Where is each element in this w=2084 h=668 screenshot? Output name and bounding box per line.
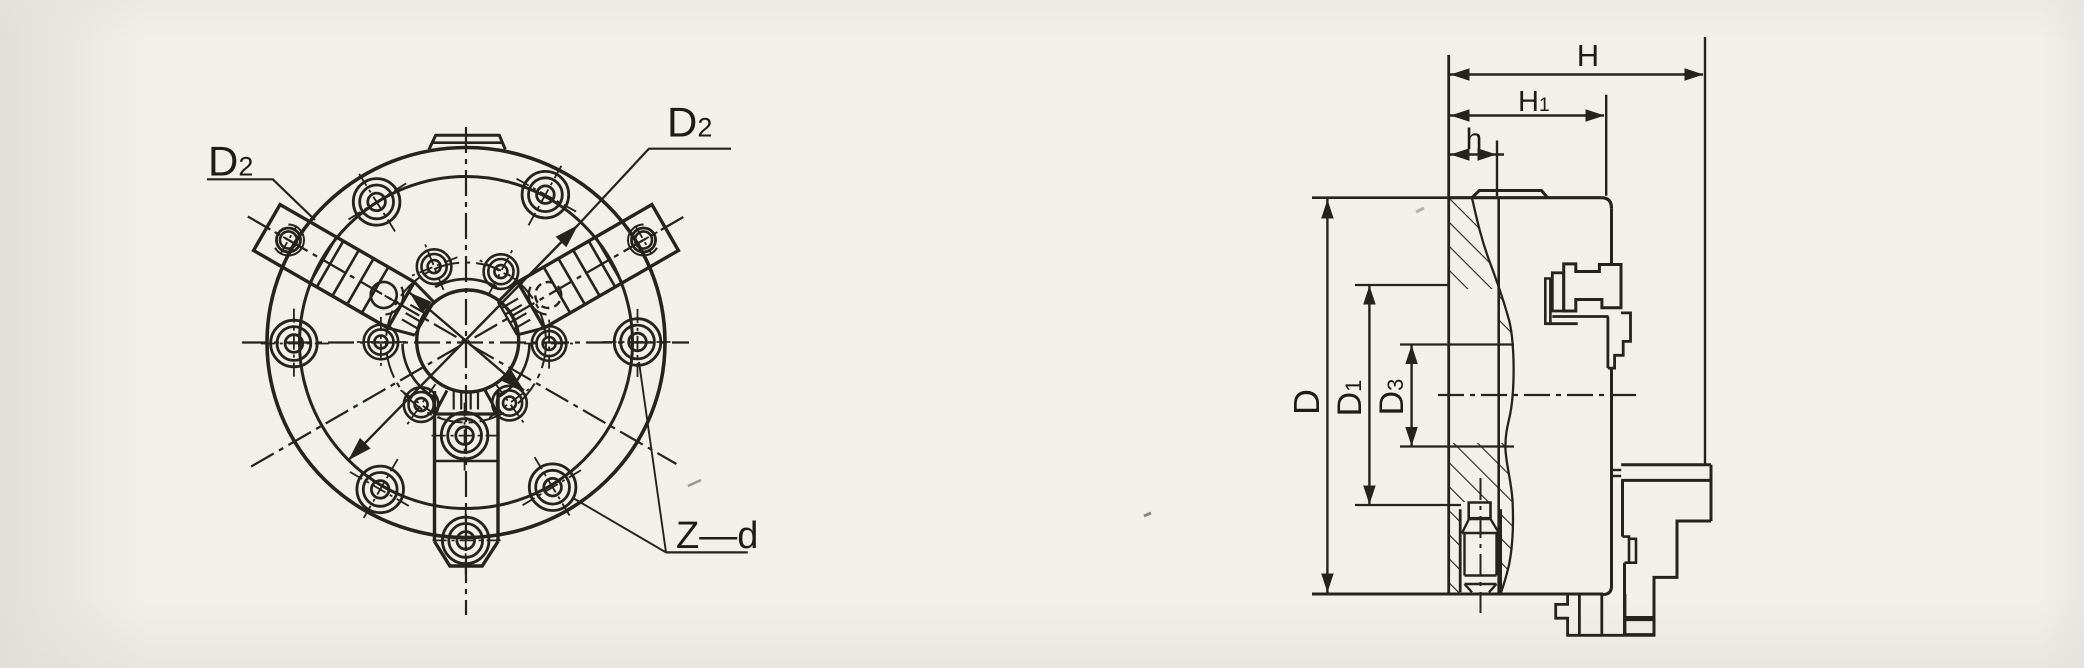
rear block divider 3 [1624, 594, 1627, 635]
bottom jaw plate top [1621, 463, 1711, 466]
leader Z-d to lower bolt [573, 498, 666, 552]
leader D2 top-right [578, 149, 731, 225]
top jaw thin plate [1545, 279, 1550, 324]
body top edge [1449, 196, 1602, 199]
dim D1 line [1368, 285, 1370, 505]
bottom jaw key tooth [1623, 537, 1637, 563]
inner screw 235 deg [404, 387, 439, 422]
dim H1 extension right [1605, 95, 1607, 196]
svg-text:D2: D2 [667, 99, 712, 146]
section break wavy line [1472, 198, 1514, 594]
body front face lower [1610, 368, 1613, 586]
bottom jaw T-nut line [1625, 618, 1654, 621]
inner screw 112 deg [417, 249, 452, 284]
bottom jaw bolt at tip [442, 517, 489, 564]
leader Z-d to right bolt [639, 362, 666, 552]
hatch region bottom [1449, 443, 1513, 594]
dim D1 top extension [1355, 284, 1449, 286]
inner screw 180 deg [364, 325, 399, 360]
bottom jaw bolt near face [441, 412, 488, 459]
top jaw base line [1552, 315, 1608, 318]
jaw axis centerline 30-210 deg [251, 217, 684, 467]
outer bolt 301 deg [529, 464, 576, 511]
screw chamfer [1462, 519, 1499, 533]
inner screw 0 deg [532, 326, 567, 361]
outer bolt 61 deg [522, 171, 569, 218]
hatch region top [1449, 198, 1513, 338]
paper specks [1144, 513, 1151, 516]
rear block divider 1 [1578, 594, 1581, 635]
flange screw counterbore [1459, 509, 1462, 592]
outer bolt 240 deg [357, 466, 404, 513]
pillar right bar [1608, 313, 1631, 368]
upper-left jaw [254, 205, 438, 342]
svg-text:H1: H1 [1518, 86, 1550, 118]
flange left edge [1447, 55, 1450, 594]
top key boss [429, 135, 505, 149]
svg-text:H: H [1577, 38, 1599, 73]
bottom jaw left edge upper [1621, 480, 1624, 536]
outer bolt 180 deg [271, 320, 318, 367]
dim D3 top extension [1400, 343, 1514, 345]
dim D3 bottom extension [1400, 445, 1514, 447]
dim D3 line [1410, 345, 1412, 447]
dim h extension right [1496, 141, 1498, 197]
svg-text:D: D [1286, 389, 1327, 415]
horizontal centerline [242, 341, 689, 343]
dim h line [1450, 153, 1504, 155]
svg-text:D2: D2 [208, 137, 253, 184]
top key boss midline [433, 141, 502, 144]
D2 inner clamp dia arrows 135-315 [410, 293, 525, 391]
vertical centerline [465, 127, 467, 615]
section top boss [1472, 191, 1548, 198]
svg-text:D1: D1 [1331, 380, 1369, 417]
leader D2 top-left [207, 179, 315, 220]
dim H extension right [1704, 37, 1706, 464]
body+flange bottom edge, D extension [1312, 593, 1603, 596]
top jaw base line 2 [1545, 322, 1577, 325]
scroll arcs around bore [435, 279, 497, 287]
bottom jaw [435, 391, 499, 567]
screw centerline [1480, 478, 1482, 613]
chuck face inner circle [300, 177, 633, 509]
body bottom-right corner [1603, 586, 1612, 595]
jaw pillar left edge [1607, 317, 1610, 369]
dim D line [1326, 199, 1328, 593]
section centerline [1438, 394, 1642, 396]
dim D top extension [1312, 196, 1449, 199]
underline Z-d [666, 551, 748, 553]
rear mount block [1556, 594, 1654, 635]
dim H line [1450, 73, 1703, 75]
outer bolt 122 deg [353, 179, 400, 226]
outer bolt 0 deg [614, 319, 661, 366]
inner screw 62 deg [484, 254, 519, 289]
screw bottom lines [1465, 574, 1497, 576]
inner bolt circle dash-dot [386, 263, 546, 423]
body top-right rounded corner [1601, 198, 1611, 209]
center bore circle [417, 290, 519, 392]
chuck body outer circle [267, 148, 665, 538]
D2 outer clamp dia double arrow 45-225 [348, 225, 578, 460]
bottom jaw tab [1613, 469, 1621, 471]
svg-text:Z—d: Z—d [676, 515, 758, 557]
dim H1 line [1450, 114, 1604, 116]
bottom jaw steps [1625, 521, 1712, 635]
pillar lower stem [1610, 368, 1612, 464]
upper-right jaw [494, 205, 678, 342]
inner screw 306 deg [492, 386, 527, 421]
top jaw insert plate [1552, 273, 1563, 311]
flange/body interface line [1497, 198, 1500, 594]
svg-text:D3: D3 [1373, 379, 1411, 416]
top jaw block [1564, 264, 1621, 311]
rear block divider 2 [1600, 594, 1603, 635]
dim D1 bottom extension [1355, 504, 1461, 506]
body front face upper [1610, 208, 1613, 265]
bottom jaw right edge [1710, 465, 1713, 521]
screw thread lines [1463, 533, 1465, 576]
bottom jaw plate lower line [1621, 479, 1711, 482]
screw tip rect [1469, 503, 1491, 519]
svg-text:h: h [1466, 123, 1483, 156]
jaw axis centerline 150-330 deg [248, 217, 677, 465]
